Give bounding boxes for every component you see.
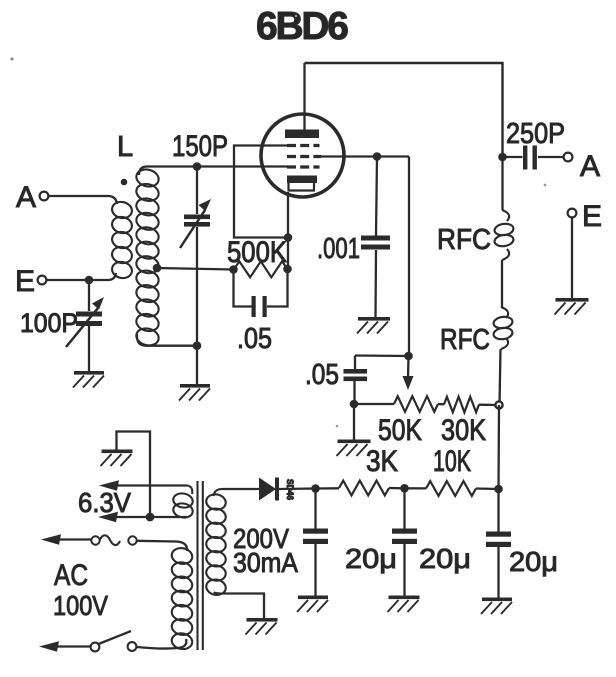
label RFC2 bbox=[440, 324, 490, 356]
label 6.3V bbox=[78, 487, 131, 518]
svg-text:E: E bbox=[582, 200, 602, 233]
node junction E-100P bbox=[85, 276, 94, 285]
wire tank bottom bbox=[137, 334, 197, 346]
transformer core bbox=[198, 481, 203, 650]
node 500K right bbox=[283, 265, 292, 274]
ground below tank bbox=[179, 384, 210, 401]
wire .05b top bbox=[354, 356, 356, 370]
wire wiper link bbox=[355, 354, 409, 357]
wire grid-1 loop bbox=[234, 146, 289, 238]
tube V1 6BD6 (pentode envelope, plate, grids, cathode) bbox=[261, 114, 344, 197]
terminal A (antenna input) bbox=[16, 181, 48, 214]
ground below .001 bbox=[357, 317, 390, 334]
label 20u third bbox=[509, 546, 558, 577]
diode D1 rectifier bbox=[259, 478, 295, 501]
resistor 30K bbox=[444, 397, 479, 413]
svg-text:E: E bbox=[15, 265, 35, 298]
inductor L primary (antenna winding) bbox=[111, 200, 134, 280]
svg-text:50K: 50K bbox=[378, 414, 422, 447]
label 20u first bbox=[345, 543, 397, 574]
svg-text:AC: AC bbox=[54, 559, 88, 592]
inductor RFC2 bbox=[493, 307, 513, 349]
svg-text:L: L bbox=[117, 131, 133, 163]
wire heater lead lower bbox=[98, 512, 187, 522]
svg-text:100P: 100P bbox=[20, 308, 78, 338]
wire 3K left bbox=[316, 487, 340, 490]
ground below 100P bbox=[73, 371, 104, 388]
ground below E output bbox=[555, 298, 589, 315]
svg-text:10K: 10K bbox=[433, 445, 471, 478]
capacitor 150P trimmer arrow bbox=[180, 199, 211, 248]
node junction tank bottom bbox=[193, 341, 202, 350]
wire switch to primary bbox=[136, 639, 186, 649]
wire RFC rail lower bbox=[500, 349, 501, 405]
svg-text:150P: 150P bbox=[172, 130, 228, 163]
label 100P bbox=[20, 308, 78, 338]
wire plate to RFC rail bbox=[305, 63, 503, 157]
wire 3K-10K bbox=[389, 487, 405, 490]
scan speck bbox=[10, 15, 546, 428]
label 30mA bbox=[233, 547, 298, 578]
resistor 50K bbox=[394, 396, 438, 412]
svg-text:RFC: RFC bbox=[437, 224, 491, 256]
inductor RFC1 bbox=[494, 210, 514, 260]
node 500K left bbox=[229, 265, 238, 274]
terminal E (earth input) bbox=[15, 265, 46, 298]
svg-text:30K: 30K bbox=[441, 414, 486, 447]
wire .05 left bbox=[234, 270, 252, 307]
wire secondary top bbox=[222, 488, 259, 490]
node 30K-RFC junction bbox=[495, 401, 502, 408]
resistor 500K bbox=[234, 261, 288, 277]
ground below secondary bbox=[246, 618, 278, 635]
ground below C3 bbox=[481, 598, 512, 615]
wire diode to B+ bbox=[279, 487, 315, 490]
terminal A (output) bbox=[564, 150, 600, 183]
wire 150P bottom bbox=[196, 227, 198, 346]
potentiometer wiper arrow bbox=[403, 356, 414, 390]
node junction C2 bbox=[400, 484, 409, 493]
node junction 250P bbox=[498, 153, 507, 162]
transformer primary winding bbox=[171, 547, 194, 651]
label 250P bbox=[506, 118, 565, 150]
label 20u second bbox=[419, 543, 471, 574]
svg-text:100V: 100V bbox=[53, 590, 108, 621]
label RFC1 bbox=[437, 224, 491, 256]
wire E to coil bbox=[47, 273, 117, 280]
svg-text:.05: .05 bbox=[305, 359, 339, 391]
label 50K bbox=[378, 414, 422, 447]
ground heater bbox=[101, 450, 133, 467]
capacitor C2 20u bbox=[392, 488, 417, 595]
wire between RFCs bbox=[501, 260, 503, 307]
capacitor .001 plates bbox=[361, 236, 390, 250]
wire .001 top bbox=[376, 157, 377, 236]
wire 50K ground drop bbox=[353, 404, 355, 440]
label 150P bbox=[172, 130, 228, 163]
wire B+ rail right bbox=[497, 405, 500, 489]
wire heater ground link bbox=[117, 432, 151, 518]
label 30K bbox=[441, 414, 486, 447]
node junction cathode-grid return bbox=[284, 233, 293, 242]
wire 250P right bbox=[538, 156, 564, 158]
polarity dot of L bbox=[121, 179, 128, 186]
inductor L secondary (tank winding) bbox=[135, 167, 161, 347]
wire plate lead bbox=[303, 63, 305, 130]
wire 50K-30K bbox=[438, 403, 444, 406]
wire E output to ground bbox=[571, 218, 573, 299]
wire secondary bottom bbox=[222, 594, 264, 619]
wire .001 bottom bbox=[374, 250, 377, 317]
capacitor 100P plates bbox=[76, 312, 102, 327]
capacitor 100P trimmer arrow bbox=[66, 297, 104, 347]
wire 50K left bbox=[354, 403, 394, 405]
capacitor 150P plates bbox=[184, 215, 210, 227]
node junction .001 bbox=[373, 152, 382, 161]
wire screen drop bbox=[408, 157, 410, 357]
terminal E (output) bbox=[568, 200, 602, 233]
svg-text:3K: 3K bbox=[366, 445, 398, 478]
svg-text:.05: .05 bbox=[237, 323, 272, 355]
capacitor 250P plates bbox=[523, 146, 537, 170]
wire tank top to grid line bbox=[139, 167, 289, 176]
coil tap wire to 500K bbox=[153, 264, 234, 273]
wire heater lead upper bbox=[99, 480, 187, 490]
wire .05 right bbox=[267, 269, 288, 307]
wire AC line upper bbox=[41, 534, 92, 544]
label .05 bypass bbox=[305, 359, 339, 391]
svg-text:RFC: RFC bbox=[440, 324, 490, 356]
wire 100P bottom bbox=[88, 326, 90, 371]
ground below 50K bbox=[337, 440, 371, 457]
label L bbox=[117, 131, 133, 163]
svg-text:250P: 250P bbox=[506, 118, 565, 150]
wire 30K right bbox=[479, 404, 496, 407]
fuse F1 bbox=[91, 535, 136, 545]
svg-text:.001: .001 bbox=[317, 233, 360, 265]
svg-text:30mA: 30mA bbox=[233, 547, 298, 578]
ground below C2 bbox=[388, 596, 420, 613]
label AC bbox=[54, 559, 88, 592]
wire A to coil bbox=[49, 196, 118, 204]
label 100V bbox=[53, 590, 108, 621]
label .05 grid bbox=[237, 323, 272, 355]
resistor 3K bbox=[339, 481, 389, 496]
wire .05b bottom bbox=[353, 381, 355, 404]
wire 250P left bbox=[503, 156, 523, 158]
wire screen grid to divider bbox=[321, 155, 409, 157]
capacitor .05 grid plates bbox=[252, 296, 267, 317]
ground below C1 bbox=[297, 596, 328, 613]
label 500K bbox=[227, 236, 287, 269]
wire 10K right bbox=[476, 487, 499, 490]
wire 100P top bbox=[88, 280, 90, 311]
transformer secondary winding 200V 30mA bbox=[205, 489, 227, 596]
label 10K bbox=[433, 445, 471, 478]
svg-text:20μ: 20μ bbox=[509, 546, 558, 577]
capacitor .05 bypass plates bbox=[344, 369, 368, 381]
node junction C1 bbox=[311, 484, 320, 493]
svg-text:A: A bbox=[16, 181, 36, 214]
resistor 10K bbox=[426, 481, 476, 496]
wire 150P top bbox=[196, 167, 198, 215]
svg-text:A: A bbox=[580, 150, 600, 183]
wire to tank ground bbox=[196, 346, 198, 384]
svg-text:6.3V: 6.3V bbox=[78, 487, 131, 518]
label 3K bbox=[366, 445, 398, 478]
transformer heater winding 6.3V bbox=[172, 486, 194, 520]
wire 10K left bbox=[405, 487, 427, 489]
capacitor C3 20u bbox=[486, 489, 511, 598]
switch S1 bbox=[91, 631, 137, 651]
wire fuse to primary bbox=[137, 541, 187, 551]
wire RFC rail upper bbox=[501, 157, 503, 210]
svg-text:500K: 500K bbox=[227, 236, 287, 269]
svg-text:6BD6: 6BD6 bbox=[256, 5, 349, 48]
node junction wiper bbox=[404, 352, 413, 361]
svg-text:20μ: 20μ bbox=[345, 543, 397, 574]
capacitor C1 20u bbox=[303, 489, 328, 596]
wire cathode lead bbox=[287, 192, 289, 269]
label tube type 6BD6 bbox=[256, 5, 349, 48]
label .001 bbox=[317, 233, 360, 265]
node junction 150P-tank bbox=[193, 162, 202, 171]
label 200V bbox=[233, 523, 289, 554]
node junction 50K left bbox=[350, 400, 359, 409]
node heater-ground junction bbox=[146, 513, 155, 522]
wire AC line lower bbox=[39, 641, 91, 651]
svg-text:20μ: 20μ bbox=[419, 543, 471, 574]
node junction C3 bbox=[494, 485, 503, 494]
